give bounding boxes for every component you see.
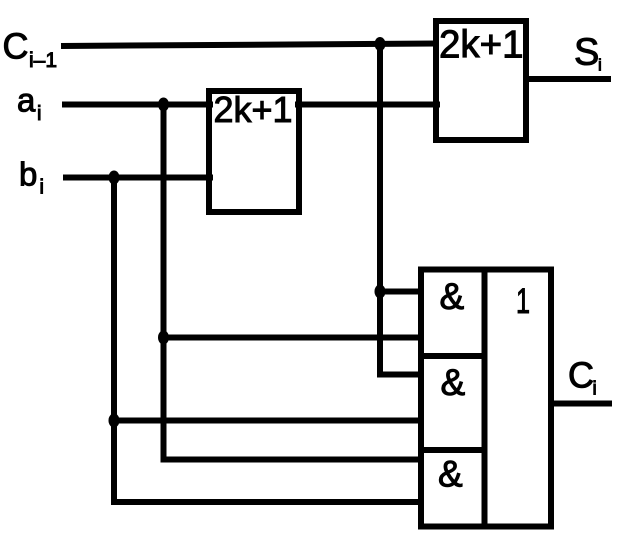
svg-text:C: C	[568, 355, 594, 396]
svg-text:1: 1	[516, 282, 530, 321]
svg-text:2k+1: 2k+1	[439, 24, 524, 67]
svg-text:C: C	[3, 26, 29, 67]
svg-text:i: i	[37, 103, 41, 125]
svg-text:i–1: i–1	[29, 49, 57, 72]
svg-text:S: S	[574, 32, 599, 74]
svg-text:i: i	[598, 56, 602, 75]
svg-text:a: a	[17, 82, 36, 119]
svg-text:&: &	[440, 276, 465, 317]
svg-text:&: &	[441, 362, 466, 403]
svg-text:i: i	[40, 177, 44, 199]
svg-text:2k+1: 2k+1	[214, 89, 293, 130]
svg-text:i: i	[593, 379, 597, 400]
svg-text:b: b	[19, 156, 37, 193]
svg-text:&: &	[438, 454, 463, 495]
